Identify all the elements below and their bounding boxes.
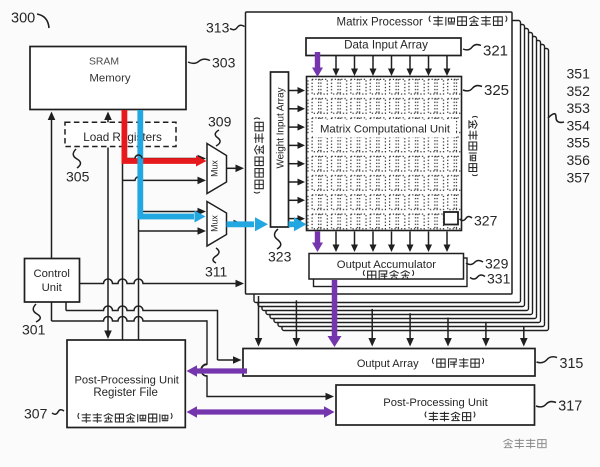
svg-text:311: 311 [205, 264, 228, 280]
svg-text:307: 307 [24, 406, 48, 422]
svg-text:355: 355 [567, 135, 591, 151]
svg-text:305: 305 [66, 169, 90, 185]
svg-text:309: 309 [208, 114, 232, 130]
purple double arrow register file to post-processing unit [187, 406, 335, 418]
svg-text:Memory: Memory [89, 73, 130, 85]
output array text [357, 358, 419, 370]
svg-text:313: 313 [206, 20, 230, 36]
weight input array text [276, 87, 287, 168]
svg-text:Output Array: Output Array [357, 358, 419, 370]
load registers text [83, 131, 162, 144]
purple arrow accumulator to output array [328, 280, 342, 347]
label 325 [463, 82, 509, 99]
output array box 315 [243, 349, 535, 377]
arrows sheets to output array [255, 296, 528, 347]
svg-text:325: 325 [484, 82, 509, 99]
label 300 [11, 11, 49, 29]
purple arrow output array to register file [187, 365, 248, 377]
svg-text:303: 303 [212, 55, 236, 71]
svg-text:Control: Control [33, 268, 69, 280]
label 307 [24, 406, 64, 422]
matrix computational unit box 325 [307, 77, 462, 231]
control unit box 301 [25, 259, 80, 303]
label 331 [470, 271, 511, 287]
label 305 [66, 149, 90, 185]
wire branch to mux2 input2 [139, 227, 207, 235]
weight input array box 323 [271, 72, 289, 227]
control line to post-processing unit [52, 303, 335, 401]
svg-text:323: 323 [268, 249, 292, 265]
control unit text [33, 268, 69, 294]
arrows weight input array to matrix [289, 87, 306, 222]
post-processing unit box 317 [336, 385, 535, 425]
svg-text:354: 354 [567, 117, 591, 133]
svg-text:300: 300 [11, 11, 35, 27]
wire SRAM to mux bus A [122, 110, 124, 340]
svg-text:315: 315 [560, 356, 584, 372]
watermark [504, 439, 546, 448]
wire branch to mux2 input1 [139, 208, 207, 216]
label 315 [537, 356, 584, 372]
SRAM memory box 303 [30, 47, 186, 110]
svg-text:Post-Processing Unit: Post-Processing Unit [74, 375, 179, 387]
output accumulator text [337, 259, 436, 271]
wire branch to mux1 input2 [123, 177, 207, 185]
blue annotation SRAM to mux2 [140, 110, 205, 223]
svg-text:Data Input Array: Data Input Array [344, 39, 428, 52]
label 317 [536, 399, 582, 415]
arrows matrix to output accumulator [333, 232, 451, 253]
annotation (post-processor register file) [78, 413, 172, 422]
svg-text:Weight Input Array: Weight Input Array [276, 87, 287, 168]
wire load registers to SRAM [104, 112, 112, 123]
wire mux1 output [227, 165, 245, 173]
annotation (post-processor) [425, 412, 475, 421]
annotation (output accumulate) [363, 270, 413, 279]
svg-text:Mux: Mux [210, 160, 220, 177]
svg-text:321: 321 [483, 43, 508, 60]
post-processing unit text [383, 397, 488, 409]
post-processing unit register file box 307 [67, 340, 185, 428]
wire mux2 output [227, 220, 243, 228]
control line to matrix processor [80, 279, 245, 287]
svg-text:Mux: Mux [210, 215, 220, 232]
svg-text:Matrix Computational Unit: Matrix Computational Unit [320, 124, 451, 136]
control line to output array [66, 303, 242, 364]
label 301 [22, 304, 46, 338]
svg-text:353: 353 [567, 100, 591, 116]
data input array box 321 [306, 38, 461, 56]
wire control unit to SRAM [48, 112, 56, 259]
load registers dashed box 305 [65, 122, 176, 146]
purple arrow matrix to accumulator [312, 232, 323, 253]
mux 311 [207, 202, 227, 247]
svg-text:317: 317 [558, 399, 582, 415]
wire branch to mux1 input1 [123, 155, 207, 163]
register file text [74, 375, 179, 399]
svg-text:Unit: Unit [42, 282, 63, 294]
brace squiggle for 351-357 [548, 114, 564, 123]
label 313 [206, 20, 245, 36]
mux 309 [207, 144, 227, 194]
sheet stack labels 351-357 [567, 66, 591, 186]
label 303 [188, 55, 236, 71]
svg-text:Register File: Register File [93, 387, 158, 399]
svg-text:352: 352 [567, 83, 591, 99]
arrows data input array to matrix [333, 56, 451, 76]
label 309 [208, 114, 232, 147]
wire load registers to register file [104, 148, 112, 340]
hop arcs over colored bars [135, 155, 207, 376]
matrix processor title [337, 17, 423, 29]
label 329 [466, 256, 509, 272]
svg-text:357: 357 [567, 169, 591, 185]
svg-text:329: 329 [485, 256, 509, 272]
purple arrow into matrix top [312, 52, 323, 77]
output accumulator box 329 [309, 254, 464, 280]
svg-text:Matrix Processor: Matrix Processor [337, 17, 423, 29]
annotation (data input array) top [429, 16, 507, 26]
annotation (matrix computational unit) right [469, 116, 478, 175]
computation cell 327 [444, 212, 458, 225]
svg-text:356: 356 [567, 152, 591, 168]
stacked matrix processor sheets 351-357 [254, 21, 549, 331]
annotation (weight input array) left [254, 118, 263, 193]
svg-text:351: 351 [567, 66, 591, 82]
data input array text [344, 39, 428, 52]
red annotation SRAM to mux1 [124, 110, 206, 167]
svg-text:331: 331 [487, 271, 511, 287]
blue annotation mux2 to weight input array [227, 217, 269, 231]
matrix processor front sheet 313 [246, 12, 513, 294]
svg-text:SRAM: SRAM [89, 57, 119, 68]
svg-text:Post-Processing Unit: Post-Processing Unit [383, 397, 488, 409]
blue annotation weight input array to matrix [289, 217, 307, 231]
label 323 [268, 229, 292, 265]
wire SRAM to mux bus B [138, 110, 140, 340]
output accumulator shadow box 331 [314, 258, 468, 287]
svg-text:301: 301 [22, 322, 46, 338]
svg-text:Output Accumulator: Output Accumulator [337, 259, 436, 271]
label 321 [463, 43, 508, 60]
label 311 [205, 248, 228, 280]
label 327 [460, 213, 498, 229]
SRAM text [89, 57, 131, 85]
svg-text:327: 327 [474, 213, 498, 229]
annotation (output array) [432, 358, 483, 367]
